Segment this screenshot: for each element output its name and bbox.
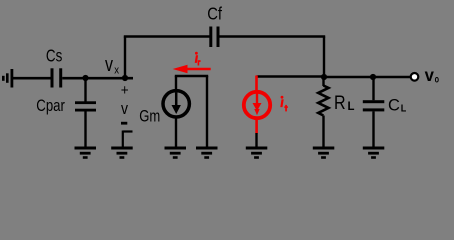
ground (input, sideways at far left) (2, 69, 13, 88)
svg-text:Gm: Gm (139, 107, 160, 126)
current source it (red test source) (244, 76, 270, 134)
capacitor Cf (209, 27, 219, 48)
svg-text:+: + (121, 82, 129, 99)
wire Cf down to output rail (323, 37, 325, 79)
svg-text:o: o (435, 73, 439, 85)
label vx (105, 54, 120, 76)
svg-text:L: L (348, 99, 355, 113)
node vx junction dot (122, 75, 128, 81)
wire Cf top line (right segment) (220, 35, 326, 37)
capacitor Cpar (75, 101, 96, 111)
capacitor CL (363, 77, 385, 147)
wire input ground to Cs (12, 77, 51, 80)
ground (Gm loop right) (196, 147, 218, 159)
ground (below Cpar) (75, 147, 97, 159)
annotation + v - (voltage across input) (121, 82, 129, 125)
wire output rail (324, 76, 411, 78)
ground (below it source) (246, 147, 267, 159)
node vo (open output terminal) (411, 73, 419, 81)
label RL (334, 93, 355, 114)
wire it bottom black stub (255, 133, 257, 147)
wire Gm top (175, 76, 177, 91)
svg-text:x: x (114, 64, 119, 76)
current source Gm (dependent source circle with down arrow) (163, 91, 189, 117)
current arrow ir (red, pointing left) (173, 65, 211, 74)
svg-text:v: v (425, 65, 435, 85)
label vo (425, 65, 439, 85)
ground (below RL) (313, 147, 335, 159)
label CL (388, 95, 407, 114)
node junction dot (output rail left, Cf/it/RL) (321, 74, 327, 80)
wire Cf top line (left segment) (124, 35, 210, 37)
capacitor Cs (51, 68, 63, 87)
wire Gm loop top horizontal (175, 75, 208, 77)
label it (280, 96, 288, 112)
wire Cpar down (84, 78, 86, 102)
svg-text:Cf: Cf (207, 3, 222, 23)
wire vx up to Cf line (124, 37, 126, 79)
svg-text:C: C (388, 95, 400, 114)
ground (below CL) (363, 147, 385, 159)
svg-text:v: v (121, 99, 128, 118)
svg-text:Cpar: Cpar (36, 97, 65, 115)
node junction dot (CL tap) (370, 74, 376, 80)
wire Gm bottom to ground (175, 117, 177, 147)
label ir (195, 52, 201, 66)
svg-text:v: v (105, 54, 113, 76)
svg-text:R: R (334, 93, 346, 114)
wire Cpar to ground (84, 112, 86, 147)
wire it loop top horizontal (257, 75, 325, 77)
svg-text:Cs: Cs (46, 45, 63, 65)
ground (below Gm) (165, 147, 187, 159)
ground (below v annotation) (111, 147, 133, 159)
wire Cs to vx (62, 77, 133, 80)
wire jog above annotation ground (123, 131, 133, 147)
node junction dot (Cpar tap) (82, 75, 88, 81)
svg-text:L: L (401, 102, 407, 114)
resistor RL (318, 77, 328, 147)
wire Gm loop right vertical (206, 76, 208, 147)
